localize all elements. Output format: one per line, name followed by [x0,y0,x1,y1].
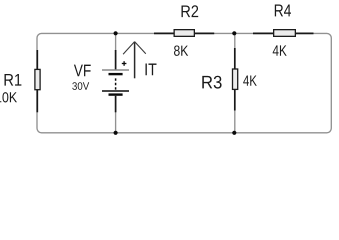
label IT [146,64,157,76]
node: top junction at R3 [232,31,236,35]
node: bottom junction at R3 [232,131,236,135]
value 8K [174,45,188,55]
resistor R3 [233,48,238,111]
current arrow IT [123,42,146,79]
value 4K (R3) [243,76,257,86]
wire: R3 branch upper segment [234,33,236,49]
wire: battery branch lower segment [115,112,117,133]
value 10K [0,92,17,102]
label R3 [202,76,221,89]
wire: R3 branch lower segment [234,110,236,133]
label VF [74,65,91,77]
value 30V [72,82,89,90]
value 4K (R4) [273,45,287,55]
node: top junction at battery [114,31,118,35]
battery VF [102,50,129,112]
node: bottom junction at battery [114,131,118,135]
wire: battery branch upper segment [115,33,117,51]
label R4 [275,5,291,17]
label R1 [5,74,22,86]
resistor R4 [253,30,314,37]
resistor R1 [35,50,40,112]
resistor R2 [154,30,214,37]
label R2 [182,5,199,17]
wire: outer rectangular loop [37,33,331,132]
